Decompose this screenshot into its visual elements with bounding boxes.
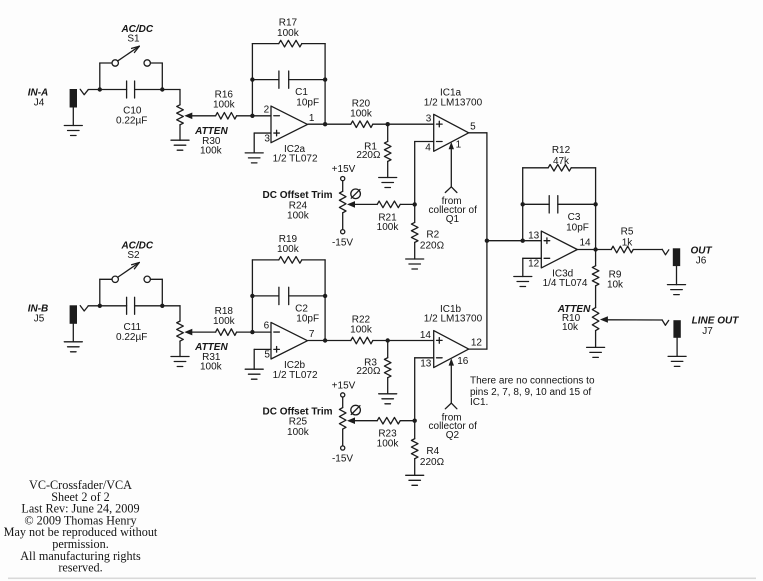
svg-text:R4: R4 — [426, 446, 439, 457]
svg-text:J6: J6 — [696, 256, 707, 267]
svg-text:220Ω: 220Ω — [420, 241, 445, 252]
svg-text:10pF: 10pF — [566, 223, 589, 234]
svg-text:10pF: 10pF — [296, 97, 319, 108]
svg-text:5: 5 — [470, 121, 476, 132]
svg-text:1: 1 — [309, 113, 315, 124]
svg-text:3: 3 — [426, 114, 432, 125]
svg-text:S2: S2 — [127, 250, 140, 261]
svg-text:reserved.: reserved. — [58, 561, 102, 575]
svg-text:1: 1 — [456, 140, 462, 151]
svg-text:J7: J7 — [702, 326, 713, 337]
svg-text:100k: 100k — [287, 427, 310, 438]
svg-text:1/2 LM13700: 1/2 LM13700 — [424, 314, 483, 325]
svg-text:100k: 100k — [277, 28, 300, 39]
svg-text:100k: 100k — [277, 244, 300, 255]
svg-text:J4: J4 — [34, 97, 45, 108]
svg-text:100k: 100k — [350, 325, 373, 336]
svg-text:1k: 1k — [622, 237, 634, 248]
svg-text:220Ω: 220Ω — [420, 457, 445, 468]
svg-text:4: 4 — [425, 142, 431, 153]
svg-text:47k: 47k — [553, 156, 570, 167]
svg-text:14: 14 — [579, 238, 591, 249]
svg-text:5: 5 — [264, 350, 270, 361]
svg-text:220Ω: 220Ω — [356, 150, 381, 161]
svg-text:12: 12 — [471, 338, 483, 349]
svg-text:13: 13 — [528, 231, 540, 242]
svg-text:13: 13 — [420, 359, 432, 370]
svg-text:7: 7 — [309, 329, 315, 340]
svg-text:220Ω: 220Ω — [356, 366, 381, 377]
svg-text:J5: J5 — [34, 314, 45, 325]
svg-text:Q2: Q2 — [446, 430, 460, 441]
svg-text:100k: 100k — [287, 211, 310, 222]
svg-text:10k: 10k — [562, 322, 579, 333]
svg-text:10k: 10k — [607, 280, 624, 291]
svg-text:0.22µF: 0.22µF — [116, 332, 147, 343]
svg-text:+15V: +15V — [332, 381, 356, 392]
svg-text:6: 6 — [264, 321, 270, 332]
svg-text:0.22µF: 0.22µF — [116, 116, 147, 127]
svg-text:C3: C3 — [568, 212, 581, 223]
svg-text:16: 16 — [457, 356, 469, 367]
svg-text:-15V: -15V — [332, 237, 353, 248]
svg-text:S1: S1 — [127, 34, 140, 45]
svg-text:100k: 100k — [200, 362, 223, 373]
svg-text:+15V: +15V — [332, 164, 356, 175]
svg-text:R12: R12 — [552, 145, 571, 156]
svg-text:100k: 100k — [200, 145, 223, 156]
svg-text:3: 3 — [264, 133, 270, 144]
svg-text:100k: 100k — [377, 222, 400, 233]
svg-text:R5: R5 — [621, 226, 634, 237]
svg-text:100k: 100k — [350, 108, 373, 119]
svg-text:There are no connections to: There are no connections to — [470, 375, 595, 386]
svg-text:100k: 100k — [377, 439, 400, 450]
svg-text:14: 14 — [420, 330, 432, 341]
svg-text:2: 2 — [264, 104, 270, 115]
svg-text:12: 12 — [528, 259, 540, 270]
svg-text:1/2 LM13700: 1/2 LM13700 — [424, 97, 483, 108]
svg-text:1/2 TL072: 1/2 TL072 — [273, 370, 318, 381]
svg-text:1/2 TL072: 1/2 TL072 — [273, 154, 318, 165]
svg-text:1/4 TL074: 1/4 TL074 — [543, 278, 588, 289]
svg-text:100k: 100k — [213, 316, 236, 327]
svg-text:Q1: Q1 — [446, 214, 460, 225]
svg-text:-15V: -15V — [332, 454, 353, 465]
svg-text:10pF: 10pF — [296, 314, 319, 325]
svg-text:LINE OUT: LINE OUT — [692, 316, 740, 327]
svg-text:100k: 100k — [213, 100, 236, 111]
svg-text:R2: R2 — [426, 230, 439, 241]
svg-text:IC1.: IC1. — [470, 397, 488, 408]
